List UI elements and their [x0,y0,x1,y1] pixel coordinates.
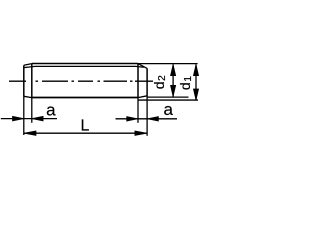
svg-text:a: a [163,100,173,119]
svg-text:L: L [80,118,89,135]
svg-text:a: a [46,101,56,120]
